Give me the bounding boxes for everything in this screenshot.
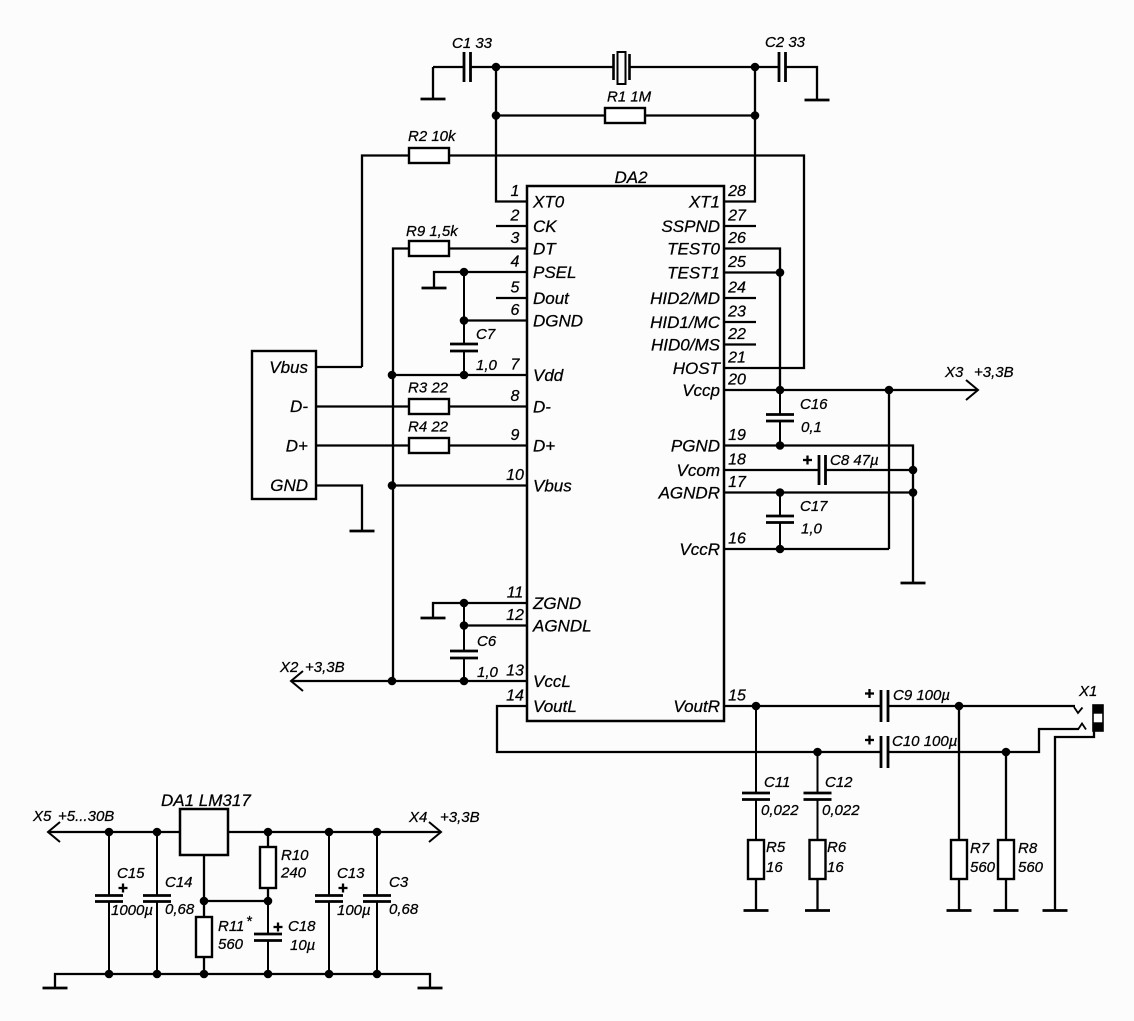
svg-text:Vbus: Vbus: [269, 358, 308, 377]
terminal X4 arrow: [429, 822, 441, 842]
crystal: [612, 54, 615, 80]
ground (ZGND): [421, 617, 446, 620]
wire: [827, 469, 914, 471]
svg-text:C6: C6: [477, 633, 497, 650]
resistor R2: [409, 148, 449, 163]
node: [373, 970, 382, 979]
wire (VccL pin 13 / X2 rail): [291, 680, 527, 682]
ground (R6): [805, 909, 830, 912]
svg-text:VccL: VccL: [533, 672, 571, 691]
resistor R9: [409, 241, 449, 256]
svg-text:+3,3B: +3,3B: [305, 659, 345, 676]
svg-text:Dout: Dout: [533, 289, 570, 308]
ground (PGND net): [901, 582, 926, 585]
wire: [472, 66, 614, 68]
connector X1 tip contact: [1074, 707, 1083, 713]
node: [460, 371, 469, 380]
wire (R4 to pin 9): [449, 444, 527, 446]
wire (AGNDL pin 12): [464, 624, 527, 626]
wire: [958, 879, 960, 911]
wire (pin 22 stub): [724, 343, 756, 345]
svg-text:R4 22: R4 22: [408, 419, 449, 436]
node: [776, 386, 785, 395]
svg-text:0,68: 0,68: [165, 901, 195, 918]
node: [460, 316, 469, 325]
svg-text:22: 22: [727, 326, 746, 343]
svg-text:21: 21: [727, 350, 746, 367]
node: [105, 970, 114, 979]
wire (pin 27 stub): [724, 225, 756, 227]
node: [752, 702, 761, 711]
node: [105, 828, 114, 837]
svg-text:7: 7: [511, 357, 521, 374]
wire (ground rail): [55, 974, 430, 988]
capacitor C2: [778, 52, 781, 82]
svg-text:10µ: 10µ: [290, 937, 315, 954]
svg-text:24: 24: [727, 280, 746, 297]
svg-text:HID1/MC: HID1/MC: [650, 313, 721, 332]
node: [813, 748, 822, 757]
svg-text:16: 16: [827, 859, 844, 876]
svg-text:C1 33: C1 33: [452, 35, 493, 52]
wire (Vbus pin 10): [392, 484, 527, 486]
svg-text:20: 20: [727, 372, 746, 389]
wire (R9 to +3,3V rail): [393, 249, 409, 682]
wire: [755, 879, 757, 911]
svg-text:C11: C11: [764, 774, 790, 791]
wire (DT pin 3): [449, 247, 527, 249]
wire (Vcom pin 18): [724, 469, 818, 471]
svg-text:13: 13: [506, 663, 524, 680]
capacitor C10: [880, 736, 883, 768]
svg-text:PGND: PGND: [671, 437, 720, 456]
wire (AGNDR pin 17): [724, 491, 913, 493]
svg-text:0,022: 0,022: [761, 802, 799, 819]
svg-text:R8: R8: [1018, 840, 1038, 857]
svg-text:D+: D+: [533, 437, 555, 456]
svg-text:C2 33: C2 33: [765, 34, 806, 51]
svg-text:R3 22: R3 22: [408, 380, 449, 397]
node: [776, 268, 785, 277]
node: [955, 702, 964, 711]
wire: [1005, 879, 1007, 911]
svg-text:R10: R10: [281, 847, 309, 864]
svg-text:HID2/MD: HID2/MD: [650, 289, 720, 308]
wire (TEST1 pin 25): [724, 271, 780, 273]
ground (right of C2): [805, 99, 830, 102]
svg-text:+3,3B: +3,3B: [974, 364, 1014, 381]
capacitor C13: [328, 832, 330, 896]
node: [1002, 748, 1011, 757]
svg-text:X2: X2: [279, 659, 299, 676]
svg-text:4: 4: [511, 254, 520, 271]
capacitor C14: [156, 832, 158, 896]
resistor R7: [951, 840, 967, 879]
svg-text:C9 100µ: C9 100µ: [893, 687, 950, 704]
svg-text:100µ: 100µ: [337, 902, 371, 919]
svg-text:Vbus: Vbus: [533, 477, 572, 496]
svg-text:R7: R7: [970, 840, 990, 857]
capacitor C12: [817, 752, 819, 793]
wire (VoutL pin 14): [497, 706, 880, 752]
resistor R8: [998, 840, 1014, 879]
svg-text:Vcom: Vcom: [677, 461, 720, 480]
svg-text:+3,3B: +3,3B: [440, 809, 480, 826]
node: [492, 63, 501, 72]
svg-text:C13: C13: [337, 865, 365, 882]
node: [264, 828, 273, 837]
svg-text:2: 2: [510, 208, 520, 225]
capacitor C11: [755, 706, 757, 793]
node: [751, 111, 760, 120]
wire (VoutR pin 15): [724, 705, 880, 707]
wire (Vccp pin 20): [724, 389, 889, 391]
svg-text:X3: X3: [944, 364, 964, 381]
node: [373, 828, 382, 837]
wire (TEST0 pin 26): [724, 249, 780, 391]
wire (ZGND pin 11): [433, 603, 527, 618]
ground (R8): [994, 909, 1019, 912]
svg-text:18: 18: [728, 452, 746, 469]
wire (DA1 adj): [203, 855, 205, 901]
capacitor C17: [779, 493, 781, 517]
wire: [645, 114, 755, 116]
capacitor C9: [880, 690, 883, 722]
capacitor C8: [818, 455, 821, 485]
resistor R3: [409, 399, 449, 414]
svg-text:17: 17: [728, 474, 747, 491]
svg-text:9: 9: [511, 427, 520, 444]
svg-text:1000µ: 1000µ: [111, 902, 153, 919]
wire: [496, 114, 605, 116]
wire (Vccp to VccR): [888, 390, 890, 549]
svg-text:C17: C17: [800, 498, 828, 515]
node: [460, 621, 469, 630]
svg-text:Vccp: Vccp: [682, 381, 720, 400]
svg-text:D+: D+: [286, 437, 308, 456]
regulator DA1: [180, 809, 228, 855]
wire (pin 2 stub): [496, 225, 527, 227]
svg-text:+5...30B: +5...30B: [58, 808, 114, 825]
wire: [1005, 752, 1007, 840]
svg-text:Vdd: Vdd: [533, 366, 564, 385]
node: [388, 371, 397, 380]
ground (left of C1): [432, 67, 434, 99]
wire (pin 23 stub): [724, 321, 756, 323]
svg-text:25: 25: [727, 254, 746, 271]
svg-text:16: 16: [766, 859, 783, 876]
node: [909, 488, 918, 497]
node: [909, 466, 918, 475]
node: [388, 677, 397, 686]
wire (to X1 ring): [889, 729, 1079, 752]
wire (D- from connector): [316, 405, 409, 407]
resistor R1: [605, 108, 645, 123]
node: [776, 488, 785, 497]
svg-text:15: 15: [728, 688, 746, 705]
svg-text:12: 12: [506, 607, 524, 624]
svg-text:14: 14: [506, 688, 524, 705]
svg-text:C12: C12: [825, 774, 853, 791]
node: [264, 970, 273, 979]
capacitor C7: [463, 272, 465, 344]
svg-text:VoutR: VoutR: [673, 697, 720, 716]
resistor R6: [810, 840, 826, 879]
capacitor C16: [779, 390, 781, 415]
svg-text:AGNDL: AGNDL: [532, 617, 592, 636]
svg-text:0,1: 0,1: [801, 419, 822, 436]
svg-text:R9 1,5k: R9 1,5k: [406, 223, 459, 240]
wire (Vbus to R2): [316, 366, 362, 368]
svg-text:DA2: DA2: [614, 168, 648, 187]
svg-text:560: 560: [218, 936, 244, 953]
svg-text:DA1 LM317: DA1 LM317: [161, 791, 251, 810]
IC DA2: [527, 186, 724, 721]
svg-text:SSPND: SSPND: [661, 217, 720, 236]
terminal X3 arrow: [966, 380, 978, 400]
svg-text:DT: DT: [533, 240, 557, 259]
svg-text:19: 19: [728, 427, 746, 444]
svg-text:GND: GND: [270, 476, 308, 495]
svg-text:X4: X4: [408, 809, 427, 826]
wire (Vdd pin 7): [392, 374, 527, 376]
svg-text:10: 10: [506, 467, 524, 484]
ground (rail left): [43, 987, 68, 990]
svg-text:240: 240: [280, 865, 307, 882]
svg-text:CK: CK: [533, 217, 557, 236]
ground (USB GND): [350, 530, 375, 533]
wire (GND): [316, 486, 362, 532]
svg-text:26: 26: [727, 230, 746, 247]
wire: [204, 900, 268, 902]
node: [325, 828, 334, 837]
svg-text:ZGND: ZGND: [532, 594, 581, 613]
svg-text:TEST0: TEST0: [667, 240, 720, 259]
svg-text:R11: R11: [218, 918, 244, 935]
node: [388, 481, 397, 490]
wire (pin 24 stub): [724, 297, 756, 299]
wire (XT0 net): [496, 67, 527, 202]
node: [153, 828, 162, 837]
svg-text:D-: D-: [290, 397, 308, 416]
wire (PSEL pin 4): [434, 272, 527, 288]
svg-text:16: 16: [728, 531, 746, 548]
svg-text:3: 3: [511, 230, 520, 247]
wire: [631, 66, 779, 68]
svg-text:D-: D-: [533, 398, 551, 417]
svg-text:DGND: DGND: [533, 312, 583, 331]
svg-text:27: 27: [727, 208, 747, 225]
svg-text:XT0: XT0: [532, 193, 565, 212]
svg-text:C14: C14: [165, 874, 193, 891]
capacitor C18: [267, 901, 269, 934]
wire: [362, 156, 409, 368]
svg-text:1,0: 1,0: [477, 664, 499, 681]
wire (DGND pin 6): [464, 319, 527, 321]
svg-text:C7: C7: [476, 326, 496, 343]
svg-text:XT1: XT1: [688, 193, 720, 212]
wire (output rail): [228, 831, 441, 833]
node: [325, 970, 334, 979]
ground (rail right): [418, 987, 443, 990]
wire: [433, 66, 463, 68]
node: [885, 386, 894, 395]
node: [776, 441, 785, 450]
wire: [816, 879, 818, 911]
svg-text:11: 11: [507, 585, 524, 602]
node: [460, 677, 469, 686]
svg-text:R2 10k: R2 10k: [408, 128, 457, 145]
node: [460, 599, 469, 608]
wire (X1 sleeve): [1055, 731, 1094, 911]
ground (X1): [1043, 909, 1068, 912]
capacitor C15: [108, 832, 110, 896]
svg-text:C10 100µ: C10 100µ: [892, 733, 957, 750]
wire (pin 5 stub): [496, 297, 527, 299]
svg-text:560: 560: [1018, 859, 1044, 876]
wire: [787, 67, 818, 100]
wire (VccR pin 16): [724, 548, 889, 550]
node: [460, 268, 469, 277]
terminal X2 arrow: [291, 671, 303, 691]
svg-text:C18: C18: [288, 918, 316, 935]
node: [153, 970, 162, 979]
resistor R4: [409, 438, 449, 453]
wire (input rail): [48, 831, 180, 833]
node: [751, 63, 760, 72]
connector USB (Vbus / D- / D+ / GND): [252, 351, 316, 499]
node: [200, 970, 209, 979]
wire (PGND pin 19): [724, 446, 913, 584]
svg-text:R6: R6: [827, 839, 847, 856]
capacitor C6: [463, 603, 465, 651]
svg-text:23: 23: [727, 304, 746, 321]
svg-text:HOST: HOST: [673, 359, 722, 378]
node: [264, 897, 273, 906]
wire (R2 to HOST pin 21): [449, 156, 804, 369]
resistor R10: [267, 832, 269, 847]
svg-text:X1: X1: [1078, 683, 1097, 700]
svg-text:TEST1: TEST1: [667, 264, 720, 283]
svg-text:5: 5: [511, 280, 520, 297]
node: [200, 897, 209, 906]
wire (D+ from connector): [316, 444, 409, 446]
wire (R3 to pin 8): [449, 405, 527, 407]
svg-text:C8 47µ: C8 47µ: [830, 452, 879, 469]
svg-text:R1 1M: R1 1M: [607, 89, 652, 106]
wire: [958, 706, 960, 840]
svg-text:1,0: 1,0: [476, 357, 498, 374]
ground (R7): [947, 909, 972, 912]
svg-text:0,68: 0,68: [389, 901, 419, 918]
node: [776, 545, 785, 554]
ground (R5): [744, 909, 769, 912]
svg-text:HID0/MS: HID0/MS: [651, 336, 721, 355]
svg-text:8: 8: [511, 388, 520, 405]
svg-text:AGNDR: AGNDR: [658, 484, 720, 503]
resistor R11: [203, 901, 205, 917]
wire (XT1 net): [724, 67, 755, 202]
svg-text:560: 560: [970, 859, 996, 876]
wire (X3 rail): [889, 389, 978, 391]
svg-text:VoutL: VoutL: [533, 697, 577, 716]
connector X1 ring contact: [1078, 724, 1086, 730]
node: [492, 111, 501, 120]
svg-text:0,022: 0,022: [822, 802, 860, 819]
svg-text:C16: C16: [800, 396, 828, 413]
svg-text:X5: X5: [32, 808, 52, 825]
svg-text:C3: C3: [389, 874, 409, 891]
svg-text:1,0: 1,0: [801, 521, 823, 538]
svg-text:VccR: VccR: [679, 540, 720, 559]
wire: [889, 705, 1075, 707]
svg-text:PSEL: PSEL: [533, 263, 576, 282]
resistor R5: [748, 840, 764, 879]
svg-text:6: 6: [511, 302, 520, 319]
svg-text:28: 28: [727, 183, 746, 200]
svg-text:1: 1: [511, 183, 520, 200]
capacitor C3: [376, 832, 378, 896]
terminal X5 arrow: [48, 822, 60, 842]
svg-text:C15: C15: [117, 865, 145, 882]
svg-text:R5: R5: [766, 839, 786, 856]
capacitor C1: [463, 52, 466, 82]
connector X1 plug body: [1093, 705, 1103, 731]
ground (PSEL): [422, 287, 447, 290]
